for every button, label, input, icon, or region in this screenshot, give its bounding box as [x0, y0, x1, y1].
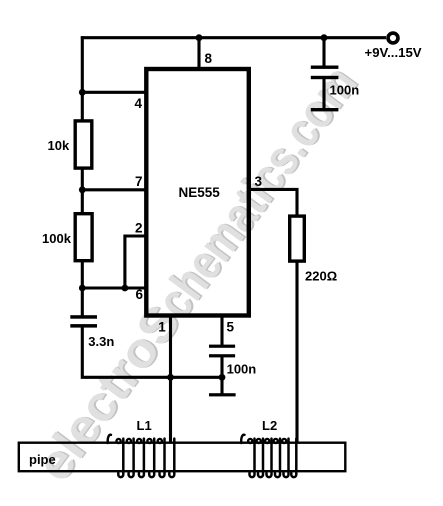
node junction C3 ground — [219, 374, 226, 381]
node junction C1 rail — [321, 34, 328, 41]
capacitor C2 3.3n — [70, 315, 97, 327]
svg-text:220Ω: 220Ω — [305, 269, 337, 284]
op-amp timer U1 NE555 body — [146, 69, 249, 316]
svg-text:8: 8 — [205, 51, 213, 66]
inductor L2 winding — [241, 435, 296, 477]
svg-text:5: 5 — [227, 320, 235, 335]
svg-text:L2: L2 — [262, 418, 277, 433]
svg-text:2: 2 — [135, 221, 143, 236]
node junction pin4 — [79, 89, 86, 96]
wire pin7 horizontal — [82, 188, 146, 191]
wire 220 ohm bottom to pipe — [295, 262, 298, 444]
node junction pin7 — [79, 186, 86, 193]
ground bar under C1 — [311, 108, 339, 111]
wire pin2 L-shape — [125, 236, 146, 288]
wire pin6 horizontal — [82, 286, 146, 289]
resistor R2 100k — [75, 214, 92, 261]
ground bar under C3 — [209, 393, 236, 396]
inductor L1 winding — [108, 435, 175, 477]
svg-text:+9V...15V: +9V...15V — [365, 45, 422, 60]
watermark ElectroSchematics.com — [25, 55, 369, 492]
wire top cap lead lower — [322, 78, 325, 110]
wire pin3 to 220 ohm — [250, 189, 297, 215]
node junction pin6 left — [79, 285, 86, 292]
resistor R3 220 ohm — [290, 216, 305, 261]
node junction pin2-pin6 — [122, 285, 129, 292]
wire pin8 vertical — [197, 38, 200, 69]
wire pin1 vertical to pipe — [169, 314, 172, 443]
node junction pin1 ground — [167, 374, 174, 381]
pipe body — [19, 443, 346, 472]
wire ground rail bottom left — [82, 327, 222, 378]
svg-text:4: 4 — [135, 96, 143, 111]
wire top supply rail — [81, 36, 386, 39]
wire bottom cap lower lead — [220, 356, 223, 395]
svg-text:7: 7 — [135, 174, 143, 189]
resistor R1 10k — [75, 121, 92, 168]
svg-text:10k: 10k — [48, 138, 70, 153]
supply terminal circle — [388, 33, 398, 43]
capacitor C3 100n bottom — [209, 345, 235, 358]
svg-text:100n: 100n — [227, 362, 257, 377]
svg-text:100k: 100k — [42, 231, 72, 246]
svg-text:NE555: NE555 — [179, 185, 221, 200]
wire pin4 horizontal — [82, 91, 146, 94]
capacitor C1 100n top right — [311, 66, 339, 80]
node junction pin8 rail — [196, 34, 203, 41]
wire left vertical rail x=82.3 — [81, 36, 84, 316]
wire top cap lead upper — [322, 38, 325, 67]
svg-text:L1: L1 — [137, 418, 152, 433]
wire pin5 vertical — [220, 314, 223, 346]
